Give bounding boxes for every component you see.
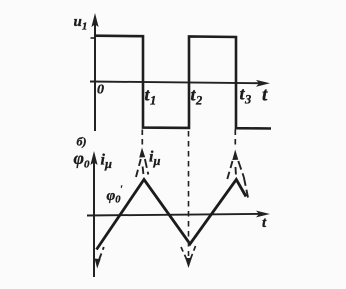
u1 vertical axis: [94, 24, 96, 131]
dashed vertical at t1: [141, 130, 143, 147]
t axis (bottom): [87, 214, 260, 216]
phi0/imu vertical axis: [93, 162, 95, 277]
imu spike 2 left dashed: [227, 161, 232, 179]
phi0 axis arrowhead: [90, 151, 97, 165]
svg-text:0: 0: [97, 83, 104, 98]
dashed vertical at t2: [188, 131, 190, 256]
tick at u1 high level: [91, 37, 96, 39]
imu left bottom arrowhead: [95, 259, 101, 269]
dashed vertical at t3: [234, 130, 236, 149]
t axis (top) arrowhead: [256, 80, 270, 87]
imu valley down arrowhead: [185, 258, 192, 268]
imu spike 1 left dashed: [136, 159, 141, 177]
t axis (top): [90, 82, 260, 84]
imu spike 1 up arrowhead: [139, 148, 145, 158]
u1 axis arrowhead: [91, 13, 98, 27]
phi0 solid triangular wave: [97, 180, 247, 250]
svg-text:t: t: [262, 85, 268, 106]
imu valley right dashed: [191, 246, 196, 259]
imu valley left dashed: [181, 247, 187, 259]
imu spike 1 mid dash: [142, 167, 145, 175]
imu spike 1 right dashed: [145, 159, 148, 175]
t axis (bottom) arrowhead: [256, 211, 270, 218]
imu right dashed tail: [244, 177, 248, 198]
svg-text:б): б): [77, 135, 87, 149]
imu spike 2 up arrowhead: [232, 150, 238, 161]
imu spike 2 right dashed: [238, 161, 244, 177]
square wave u1: [95, 36, 271, 129]
imu spike 2 mid dash: [235, 167, 237, 175]
imu dashed left start segment: [99, 247, 104, 261]
